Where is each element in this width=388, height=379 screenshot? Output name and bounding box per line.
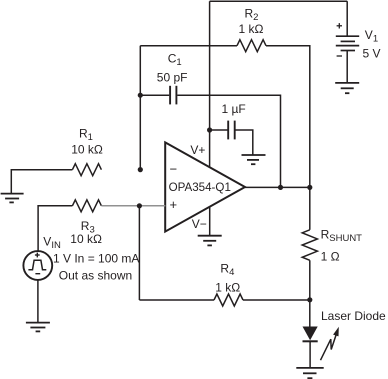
svg-text:R2: R2	[245, 6, 259, 23]
ground (1uF decoupling)	[242, 155, 266, 164]
svg-text:VIN: VIN	[43, 235, 61, 252]
svg-text:1 V In = 100 mA: 1 V In = 100 mA	[53, 251, 139, 265]
battery V1 plus sign	[337, 23, 342, 28]
wire: VIN bottom to ground	[37, 280, 39, 323]
wire: 1uF cap right lead to ground	[235, 130, 253, 155]
wire: VIN to R3 left lead	[38, 206, 72, 251]
op-amp V- pin wire	[209, 207, 211, 236]
wire: + input node down to R4	[138, 206, 140, 300]
wire: R2 row left segment from feedback node	[140, 45, 237, 47]
capacitor C1	[170, 86, 176, 105]
node: laser anode / R4 junction	[307, 297, 312, 302]
svg-text:1 µF: 1 µF	[222, 102, 246, 116]
op-amp output wire	[245, 186, 310, 188]
source VIN (pulse source circle)	[23, 251, 52, 280]
wire: feedback vertical (R2/C1 to inverting node)	[139, 46, 141, 170]
svg-text:1 Ω: 1 Ω	[321, 250, 340, 264]
svg-text:Laser Diode: Laser Diode	[321, 309, 386, 323]
node: C1 / feedback junction	[138, 93, 143, 98]
node: inverting input junction	[138, 167, 143, 172]
wire: Rshunt bottom to laser node	[309, 260, 311, 300]
laser diode D1	[303, 327, 318, 368]
resistor R1	[72, 164, 101, 176]
svg-text:10 kΩ: 10 kΩ	[70, 232, 102, 246]
source VIN minus sign	[35, 273, 40, 275]
resistor R3	[72, 200, 101, 212]
resistor Rshunt (vertical)	[302, 230, 317, 260]
op-amp U1 OPA354-Q1 triangle	[165, 142, 245, 231]
wire: R2 right segment to right vertical	[266, 46, 310, 188]
source VIN plus sign	[35, 253, 40, 258]
node: non-inverting input / R4 junction	[137, 203, 142, 208]
wire: laser node down to diode	[309, 300, 311, 327]
capacitor 1uF	[228, 121, 235, 140]
svg-text:Out as shown: Out as shown	[59, 268, 132, 282]
svg-text:R1: R1	[79, 127, 93, 144]
svg-text:10 kΩ: 10 kΩ	[71, 142, 103, 156]
wire: R3 to op-amp + input (grey)	[101, 205, 165, 207]
ground (VIN)	[26, 323, 50, 332]
ground (battery V1)	[335, 83, 359, 93]
svg-text:OPA354-Q1: OPA354-Q1	[169, 181, 231, 194]
svg-text:−: −	[170, 162, 178, 177]
wire: V+ rail top horizontal	[210, 0, 348, 2]
resistor R4	[214, 294, 243, 306]
source VIN pulse waveform	[28, 260, 46, 270]
battery V1 minus sign	[337, 55, 342, 57]
svg-text:C1: C1	[168, 52, 182, 69]
ground (op-amp V-)	[198, 236, 222, 246]
svg-text:5 V: 5 V	[363, 46, 381, 60]
wire: R4 left segment	[139, 299, 214, 301]
laser emission arrow	[321, 327, 339, 360]
svg-text:1 kΩ: 1 kΩ	[215, 281, 240, 295]
ground (laser diode cathode)	[296, 368, 323, 378]
svg-text:50 pF: 50 pF	[157, 70, 188, 84]
wire: V+ rail vertical down to op-amp V+ pin	[209, 1, 211, 167]
resistor R2	[237, 40, 266, 52]
wire: output down to Rshunt	[309, 187, 311, 229]
svg-text:RSHUNT: RSHUNT	[321, 227, 363, 244]
svg-text:R4: R4	[220, 261, 234, 278]
node: output / R2 / Rshunt junction	[307, 185, 312, 190]
svg-text:V1: V1	[365, 28, 378, 45]
svg-text:V−: V−	[192, 217, 207, 231]
svg-text:1 kΩ: 1 kΩ	[239, 22, 264, 36]
node: 1uF junction on V+ rail	[207, 127, 212, 132]
battery V1	[336, 1, 359, 82]
ground (R1 / non-inverting reference)	[1, 194, 24, 203]
svg-text:V+: V+	[190, 143, 205, 157]
wire: C1 row left	[140, 94, 169, 96]
node: output / C1 junction	[278, 185, 283, 190]
svg-text:+: +	[170, 197, 178, 212]
wire: C1 row right, down to output node	[177, 95, 280, 187]
wire: R1 left lead and bend to ground	[11, 170, 72, 194]
wire: 1uF cap left lead	[210, 129, 228, 131]
wire: R4 right segment to laser node	[243, 299, 310, 301]
